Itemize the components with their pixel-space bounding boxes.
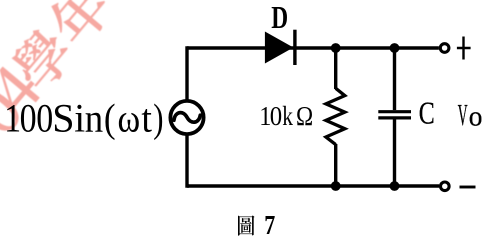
wire capacitor branch top bbox=[393, 48, 396, 110]
diode D cathode bar bbox=[293, 30, 296, 65]
svg-text:): ) bbox=[153, 96, 163, 141]
polarity sign - bbox=[460, 186, 476, 189]
svg-text:(: ( bbox=[104, 96, 116, 141]
svg-text:0: 0 bbox=[270, 101, 282, 131]
svg-text:7: 7 bbox=[264, 211, 275, 241]
wire source branch lower bbox=[187, 134, 189, 186]
watermark text 04學年 (pink, rotated) bbox=[0, 0, 116, 140]
AC source 100Sin(wt) circle bbox=[170, 101, 203, 134]
wire resistor branch bottom bbox=[334, 144, 337, 186]
junction node dot (bottom of resistor) bbox=[331, 181, 341, 191]
svg-text:0: 0 bbox=[36, 97, 53, 141]
wire source branch upper bbox=[187, 48, 189, 101]
value label 10kOhm bbox=[259, 100, 313, 131]
capacitor C top plate bbox=[378, 110, 411, 113]
svg-text:i: i bbox=[74, 96, 85, 140]
svg-text:Ω: Ω bbox=[296, 101, 313, 131]
diode D anode triangle bbox=[265, 32, 294, 64]
svg-text:D: D bbox=[271, 0, 288, 35]
wire capacitor branch bottom bbox=[393, 120, 396, 187]
svg-text:C: C bbox=[419, 97, 435, 132]
svg-text:0: 0 bbox=[20, 97, 37, 141]
svg-text:k: k bbox=[282, 101, 293, 131]
polarity sign + bbox=[457, 37, 471, 60]
wire resistor branch top bbox=[334, 48, 337, 89]
junction node dot (bottom of capacitor C) bbox=[390, 181, 400, 191]
AC source sine symbol bbox=[174, 113, 200, 123]
junction node dot (top of capacitor C) bbox=[390, 43, 400, 53]
svg-text:ω: ω bbox=[118, 97, 141, 141]
wire bottom rail (source to - terminal) bbox=[187, 184, 439, 187]
resistor 10kOhm zigzag bbox=[326, 88, 345, 144]
svg-text:t: t bbox=[141, 97, 152, 141]
output terminal - (open circle) bbox=[441, 182, 450, 191]
svg-text:o: o bbox=[469, 101, 483, 133]
svg-text:n: n bbox=[85, 97, 103, 141]
svg-text:V: V bbox=[458, 99, 468, 133]
svg-text:S: S bbox=[52, 96, 74, 141]
value label 100Sin(wt) bbox=[4, 96, 163, 142]
junction node dot (top of resistor) bbox=[331, 43, 341, 53]
output terminal + (open circle) bbox=[440, 44, 449, 53]
capacitor C bottom plate bbox=[378, 116, 411, 119]
wire top rail (source to + terminal) bbox=[187, 46, 439, 49]
svg-text:1: 1 bbox=[4, 97, 21, 141]
caption figure character (Tu) bbox=[238, 215, 255, 235]
